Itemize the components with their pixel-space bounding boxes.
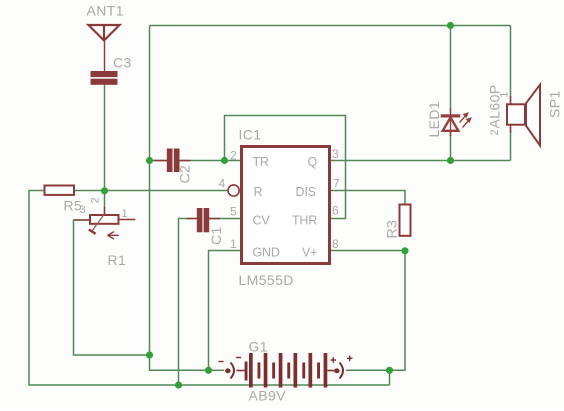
LED LED1: [441, 108, 472, 136]
op-amp / timer IC1 LM555D: [228, 147, 330, 264]
svg-text:1: 1: [499, 92, 511, 98]
resistor R3: [400, 205, 411, 236]
capacitor C1: [187, 208, 220, 232]
wire battery plus lead: [346, 369, 390, 371]
wire node A to R pin 4: [105, 190, 228, 192]
wire TR to THR loop over IC: [225, 116, 346, 219]
svg-text:C2: C2: [177, 165, 193, 184]
svg-text:AB9V: AB9V: [249, 388, 287, 404]
speaker SP1: [507, 85, 540, 146]
svg-text:GND: GND: [253, 246, 280, 260]
svg-text:IC1: IC1: [239, 127, 262, 143]
wire C2 left lead: [150, 160, 167, 162]
svg-text:AL60P: AL60P: [487, 84, 503, 128]
junction C1 / bottom rail: [175, 381, 182, 388]
antenna ANT1: [89, 25, 120, 71]
wire node down to battery minus: [150, 355, 209, 370]
svg-text:LM555D: LM555D: [239, 272, 294, 288]
wire node to pot pin3 branch: [74, 220, 150, 355]
capacitor C2: [154, 149, 191, 173]
svg-text:THR: THR: [292, 214, 317, 228]
wire bottom rail net V+: [29, 191, 390, 386]
svg-text:1: 1: [122, 208, 128, 220]
svg-text:TR: TR: [253, 155, 269, 169]
wire battery plus to V+ pin 8: [390, 251, 406, 371]
wire C2 right to TR pin 2: [179, 160, 240, 162]
wire top rail net V-: [150, 25, 511, 27]
svg-text:8: 8: [332, 237, 339, 251]
svg-text:V+: V+: [302, 246, 317, 260]
wire C1 left to bottom rail: [179, 219, 197, 386]
wire speaker top pin riser: [510, 26, 512, 104]
svg-text:6: 6: [332, 204, 339, 218]
wire LED column lower: [450, 132, 452, 161]
svg-text:5: 5: [230, 205, 237, 219]
potentiometer R1: [74, 207, 135, 239]
resistor R5: [45, 186, 75, 195]
junction battery-minus branch node: [146, 351, 153, 358]
wire R5 right to node A: [75, 190, 105, 192]
svg-text:R3: R3: [384, 220, 400, 239]
junction C2 left: [146, 157, 153, 164]
svg-text:CV: CV: [253, 214, 271, 228]
wire DIS pin 7 to R3 top: [331, 191, 405, 205]
svg-text:2: 2: [489, 129, 501, 135]
capacitor C3: [91, 71, 118, 85]
wire CV pin 5 stub to C1: [209, 218, 240, 220]
wire Q pin 3 output net: [331, 160, 511, 162]
junction TR / C2 right: [221, 157, 228, 164]
svg-text:LED1: LED1: [426, 101, 442, 138]
svg-text:C3: C3: [113, 55, 132, 71]
junction top rail / LED: [447, 22, 454, 29]
svg-text:SP1: SP1: [547, 90, 563, 118]
junction battery plus node: [386, 367, 393, 374]
svg-text:4: 4: [219, 177, 226, 191]
svg-text:2: 2: [230, 149, 237, 163]
svg-text:3: 3: [332, 147, 339, 161]
svg-text:7: 7: [333, 177, 340, 191]
battery G1: [219, 353, 353, 388]
junction Q net / LED bottom: [447, 157, 454, 164]
svg-text:2: 2: [90, 197, 102, 203]
junction battery minus / GND: [205, 367, 212, 374]
wire battery plus riser to bottom rail: [389, 370, 391, 385]
wire antenna column below C3 to node A: [104, 85, 106, 191]
svg-text:Q: Q: [308, 155, 318, 169]
wire left riser x149.5 from top rail to node: [149, 26, 151, 356]
svg-text:ANT1: ANT1: [87, 3, 124, 19]
svg-text:R: R: [254, 185, 263, 199]
junction node A at R5/R pin/pot: [101, 187, 108, 194]
wire battery minus lead: [209, 369, 225, 371]
wire V+ pin 8 stub: [331, 250, 405, 252]
svg-text:G1: G1: [249, 339, 268, 355]
svg-text:1: 1: [230, 237, 237, 251]
svg-text:C1: C1: [208, 226, 224, 245]
svg-text:3: 3: [80, 204, 86, 216]
junction V+ / R3 bottom: [401, 247, 408, 254]
wire node A down to pot pin 2: [104, 191, 106, 216]
wire LED column upper: [450, 26, 452, 114]
svg-text:R1: R1: [108, 252, 127, 268]
wire battery minus to GND pin 1: [209, 251, 241, 371]
svg-text:DIS: DIS: [296, 185, 316, 199]
wire speaker bottom pin drop: [510, 126, 512, 161]
